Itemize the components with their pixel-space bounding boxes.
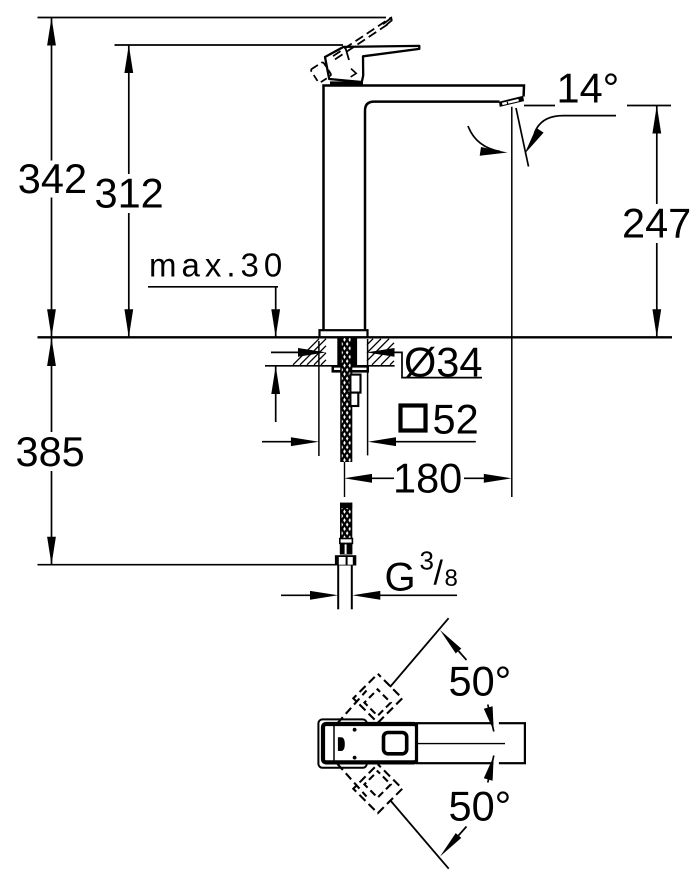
dimension 180 bbox=[344, 455, 512, 502]
stepped connector on rod bbox=[350, 375, 360, 406]
dashed square rotated upper inner bbox=[364, 689, 390, 715]
top view: base plate square bbox=[318, 719, 366, 767]
handle lever and body front bbox=[325, 46, 419, 83]
water stream tilted line (14 deg) bbox=[516, 108, 529, 167]
reference line hose-end (385 level) bbox=[38, 564, 336, 566]
svg-text:/: / bbox=[434, 555, 444, 593]
base plate (escutcheon) front bbox=[320, 330, 368, 337]
svg-text:180: 180 bbox=[393, 455, 462, 502]
hose end tube G3/8 bbox=[338, 566, 352, 610]
swivel limit line upper 50 deg bbox=[390, 618, 449, 687]
leader 14 deg bbox=[525, 116, 617, 154]
top view: spout rectangle bbox=[417, 723, 525, 763]
dimension diameter 34 bbox=[271, 339, 482, 386]
under-counter shank tube walls bbox=[337, 338, 357, 366]
dashed extension lower-left bbox=[338, 764, 367, 797]
dashed square rotated lower outer bbox=[353, 764, 402, 813]
svg-text:14°: 14° bbox=[557, 65, 620, 112]
threaded rod (braided texture) bbox=[341, 338, 352, 462]
top view: handle block bbox=[323, 724, 417, 762]
spout aerator (14 deg face) bbox=[499, 96, 524, 107]
svg-text:247: 247 bbox=[622, 200, 691, 247]
counter bottom line bbox=[265, 365, 395, 367]
countertop line bbox=[38, 336, 673, 338]
svg-text:312: 312 bbox=[95, 170, 164, 217]
svg-text:50°: 50° bbox=[449, 658, 512, 705]
hose nut bbox=[335, 555, 356, 565]
dimension G 3/8 bbox=[281, 546, 458, 600]
dimension 312 bbox=[95, 45, 164, 337]
dimension square 52 bbox=[262, 339, 479, 456]
dimension 247 bbox=[622, 106, 691, 338]
hose ferrule bbox=[340, 539, 353, 555]
handle raised position (dashed) bbox=[310, 18, 391, 84]
angle arc tick lower at spout bbox=[484, 756, 494, 783]
svg-text:3: 3 bbox=[420, 546, 434, 576]
dimension 342 bbox=[18, 18, 87, 338]
svg-text:385: 385 bbox=[16, 428, 85, 475]
dashed extension upper-left bbox=[338, 691, 367, 724]
reference line top (342 level) bbox=[38, 17, 387, 19]
svg-text:Ø34: Ø34 bbox=[404, 339, 482, 386]
angle arc tick upper at spout bbox=[484, 705, 494, 732]
rotation arc arrow at spout bbox=[468, 126, 508, 156]
dimension 385 bbox=[16, 338, 85, 565]
hose braid top cap bbox=[340, 503, 352, 508]
mounting nut bbox=[332, 366, 370, 373]
label 14 deg bbox=[524, 65, 619, 112]
svg-text:G: G bbox=[385, 555, 416, 599]
svg-text:342: 342 bbox=[18, 155, 87, 202]
rod centerline extension (180 left ext) bbox=[344, 462, 346, 497]
swivel limit line lower 50 deg bbox=[390, 800, 449, 869]
dashed square rotated lower inner bbox=[364, 771, 390, 797]
svg-text:50°: 50° bbox=[449, 783, 512, 830]
counter hatching left bbox=[293, 339, 326, 365]
dimension max.30 bbox=[148, 247, 287, 423]
label 50 deg lower with leader bbox=[440, 783, 511, 857]
top view: spout centerline bbox=[415, 743, 505, 745]
svg-text:8: 8 bbox=[445, 565, 458, 592]
gap in spout edge at arc tick bbox=[493, 722, 499, 765]
label 50 deg upper with leader bbox=[440, 630, 511, 705]
water stream vertical line bbox=[511, 107, 513, 497]
counter hatching right bbox=[367, 339, 394, 365]
reference line handle-top (312 level) bbox=[115, 44, 344, 46]
hose braided section bbox=[341, 503, 352, 539]
svg-text:52: 52 bbox=[433, 396, 479, 443]
faucet body and spout outline bbox=[324, 86, 525, 331]
dashed square rotated upper outer bbox=[353, 674, 402, 723]
svg-text:max.30: max.30 bbox=[149, 247, 287, 284]
